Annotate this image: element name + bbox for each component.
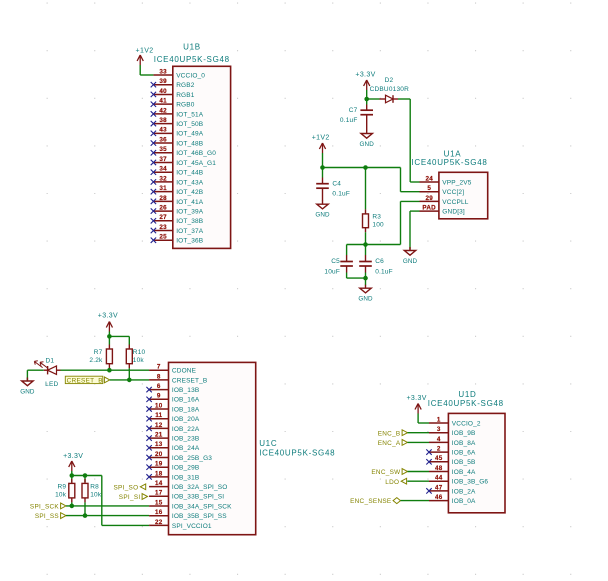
U1D pin 4 IOB_8A: [429, 436, 476, 447]
svg-text:41: 41: [159, 98, 167, 105]
global label CRESET_B: [65, 376, 110, 384]
wire ENC_SW to U1D pin 48: [408, 471, 430, 473]
svg-text:37: 37: [159, 156, 167, 163]
svg-text:+1V2: +1V2: [312, 135, 330, 142]
svg-text:IOB_8A: IOB_8A: [452, 440, 476, 447]
svg-text:VCC[2]: VCC[2]: [442, 189, 464, 196]
svg-text:45: 45: [435, 455, 443, 462]
svg-text:IOB_18A: IOB_18A: [172, 406, 200, 413]
svg-text:IOB_6A: IOB_6A: [452, 450, 476, 457]
svg-text:10uF: 10uF: [324, 269, 340, 276]
svg-text:IOT_43A: IOT_43A: [176, 179, 204, 186]
svg-text:39: 39: [159, 78, 167, 85]
svg-text:U1D: U1D: [458, 390, 476, 399]
svg-text:GND: GND: [315, 212, 330, 219]
svg-text:ICE40UP5K-SG48: ICE40UP5K-SG48: [259, 449, 335, 458]
U1D pin 47 IOB_2A: [426, 484, 476, 495]
U1C pin 8 CRESET_B: [149, 373, 207, 384]
svg-text:+3.3V: +3.3V: [406, 395, 426, 402]
wire CRESET_B label to U1C pin 8: [110, 379, 149, 381]
U1C pin 13 IOB_24A: [146, 441, 199, 452]
svg-text:CRESET_B: CRESET_B: [67, 378, 103, 385]
svg-text:R8: R8: [90, 483, 99, 490]
svg-text:IOB_33B_SPI_SI: IOB_33B_SPI_SI: [172, 494, 224, 501]
svg-text:SPI_SCK: SPI_SCK: [30, 504, 60, 511]
node R9 bottom / SPI_SCK junction: [70, 504, 75, 509]
global label SPI_SS: [35, 513, 66, 521]
ground below C4: [315, 201, 330, 219]
svg-text:IOB_2A: IOB_2A: [452, 488, 476, 495]
svg-text:IOT_46B_G0: IOT_46B_G0: [176, 150, 216, 157]
U1B pin 41 RGB0: [151, 98, 195, 109]
wire ENC_A to U1D pin 4: [408, 441, 430, 443]
wire SPI_SCK to U1C pin 15: [66, 505, 149, 507]
svg-text:IOT_48B: IOT_48B: [176, 140, 203, 147]
svg-text:23: 23: [159, 224, 167, 231]
svg-text:IOT_39A: IOT_39A: [176, 208, 204, 215]
svg-text:36: 36: [159, 136, 167, 143]
svg-text:IOT_36B: IOT_36B: [176, 238, 203, 245]
svg-text:29: 29: [425, 195, 433, 202]
U1B pin 33 VCCIO_0: [153, 68, 205, 79]
svg-text:+3.3V: +3.3V: [98, 313, 118, 320]
svg-text:ENC_A: ENC_A: [378, 440, 401, 447]
svg-text:ICE40UP5K-SG48: ICE40UP5K-SG48: [154, 55, 230, 64]
svg-text:0.1uF: 0.1uF: [375, 269, 393, 276]
svg-text:IOB_35B_SPI_SS: IOB_35B_SPI_SS: [172, 513, 227, 520]
IC U1C ICE40UP5K-SG48 (bank 1 IO / SPI): [169, 362, 256, 534]
svg-text:IOB_22A: IOB_22A: [172, 426, 200, 433]
U1C pin 9 IOB_16A: [146, 393, 199, 404]
svg-text:6: 6: [157, 383, 161, 390]
svg-text:22: 22: [155, 519, 163, 526]
U1D pin 1 VCCIO_2: [429, 416, 481, 427]
svg-text:C7: C7: [349, 107, 358, 114]
svg-text:IOB_9B: IOB_9B: [452, 430, 476, 437]
wire rail down to U1A pin 5: [400, 168, 402, 192]
resistor R7 2.2k: [108, 336, 110, 344]
resistor R8 10k: [84, 476, 86, 482]
global label ENC_B: [378, 430, 408, 438]
U1B pin 23 IOT_37A: [151, 224, 204, 235]
svg-text:43: 43: [159, 127, 167, 134]
global label ENC_SENSE: [350, 498, 400, 506]
svg-text:35: 35: [159, 146, 167, 153]
svg-text:ENC_SENSE: ENC_SENSE: [350, 498, 391, 505]
svg-text:SPI_SO: SPI_SO: [114, 484, 139, 491]
U1D pin 46 IOB_0A: [429, 494, 476, 505]
svg-text:38: 38: [159, 117, 167, 124]
capacitor C4 0.1uF: [322, 168, 324, 178]
svg-text:IOT_42B: IOT_42B: [176, 189, 203, 196]
svg-text:IOB_24A: IOB_24A: [172, 445, 200, 452]
U1C pin 17 IOB_33B_SPI_SI: [149, 490, 224, 501]
power +3.3V (R7/R10): [98, 313, 118, 337]
U1C pin 21 IOB_23B: [146, 432, 199, 443]
wire caps bottom: [347, 277, 366, 279]
svg-text:2.2k: 2.2k: [89, 357, 103, 364]
IC U1A ICE40UP5K-SG48 (power pins): [439, 172, 488, 219]
node R7 bottom / CDONE junction: [107, 368, 112, 373]
ground below C7: [360, 130, 375, 148]
svg-text:26: 26: [159, 204, 167, 211]
U1C pin 22 SPI_VCCIO1: [149, 519, 212, 530]
svg-text:GND: GND: [358, 296, 373, 303]
U1C pin 18 IOB_31B: [146, 470, 199, 481]
svg-text:GND: GND: [403, 258, 418, 265]
wire +3.3V to U1D pin 1: [418, 422, 429, 424]
power +3.3V (R9/R8): [63, 453, 83, 476]
wire down to U1C pin 22 SPI_VCCIO1: [101, 476, 103, 526]
svg-text:0.1uF: 0.1uF: [332, 191, 350, 198]
svg-text:9: 9: [157, 393, 161, 400]
svg-text:IOB_32A_SPI_SO: IOB_32A_SPI_SO: [172, 484, 228, 491]
node +3.3V / R9 top junction: [70, 473, 75, 478]
U1C pin 20 IOB_25B_G3: [146, 451, 212, 462]
svg-text:CRESET_B: CRESET_B: [172, 377, 208, 384]
svg-text:+3.3V: +3.3V: [355, 72, 375, 79]
power +3.3V (U1D): [406, 395, 426, 423]
power +1V2 (rail): [312, 135, 330, 168]
svg-text:47: 47: [435, 484, 443, 491]
U1A pin 5 VCC[2]: [420, 185, 465, 196]
node R3 bottom junction: [363, 242, 368, 247]
svg-text:U1B: U1B: [183, 42, 201, 51]
capacitor C7 0.1uF: [366, 99, 368, 105]
svg-text:27: 27: [159, 214, 167, 221]
U1B pin 42 IOT_51A: [151, 107, 204, 118]
svg-text:+3.3V: +3.3V: [63, 453, 83, 460]
wire SPI_SS to U1C pin 16: [66, 515, 149, 517]
LED D1: [34, 358, 60, 388]
resistor R9 10k: [71, 476, 73, 482]
svg-text:18: 18: [155, 470, 163, 477]
node +3.3V junction at D2 anode: [364, 97, 369, 102]
svg-text:17: 17: [155, 490, 163, 497]
U1D pin 45 IOB_5B: [426, 455, 475, 466]
svg-text:IOT_51A: IOT_51A: [176, 111, 204, 118]
svg-text:ENC_B: ENC_B: [378, 430, 401, 437]
global label ENC_A: [378, 440, 408, 448]
U1B pin 28 IOT_41A: [151, 195, 204, 206]
svg-text:ENC_SW: ENC_SW: [371, 469, 401, 476]
node R8 top junction: [83, 473, 88, 478]
svg-text:ICE40UP5K-SG48: ICE40UP5K-SG48: [428, 399, 504, 408]
svg-text:4: 4: [437, 436, 441, 443]
svg-text:28: 28: [159, 195, 167, 202]
svg-text:VCCIO_0: VCCIO_0: [176, 72, 205, 79]
svg-text:SPI_SS: SPI_SS: [35, 513, 59, 520]
node R10 bottom / CRESET junction: [127, 378, 132, 383]
U1B pin 38 IOT_50B: [151, 117, 204, 128]
svg-text:VCCPLL: VCCPLL: [442, 199, 468, 206]
wire ENC_SENSE to U1D pin 46: [401, 500, 430, 502]
wire R9 top to R8 top and right: [72, 475, 102, 477]
svg-text:15: 15: [155, 499, 163, 506]
svg-text:IOB_13B: IOB_13B: [172, 387, 199, 394]
U1D pin 2 IOB_6A: [426, 446, 476, 457]
svg-text:U1C: U1C: [259, 439, 277, 448]
U1A pin PAD GND[3]: [420, 205, 465, 216]
svg-text:3: 3: [437, 426, 441, 433]
svg-text:IOB_25B_G3: IOB_25B_G3: [172, 455, 212, 462]
svg-text:GND: GND: [360, 141, 375, 148]
svg-text:RGB1: RGB1: [176, 92, 195, 99]
U1C pin 15 IOB_34A_SPI_SCK: [149, 499, 232, 510]
U1B pin 25 IOT_36B: [151, 234, 204, 245]
svg-text:IOB_16A: IOB_16A: [172, 397, 200, 404]
svg-text:GND[3]: GND[3]: [442, 209, 465, 216]
node +1V2 rail left junction: [320, 165, 325, 170]
IC U1B ICE40UP5K-SG48 (bank 0 IO): [173, 66, 231, 248]
svg-text:5: 5: [427, 185, 431, 192]
U1C pin 12 IOB_22A: [146, 422, 199, 433]
U1B pin 40 RGB1: [151, 88, 195, 99]
U1C pin 7 CDONE: [149, 364, 197, 375]
svg-text:R3: R3: [372, 214, 381, 221]
U1B pin 34 IOT_44B: [151, 166, 204, 177]
wire R3 bottom to U1A pin 29 (VCCPLL): [366, 244, 401, 246]
ground below C5/C6: [358, 285, 373, 303]
svg-text:C5: C5: [331, 258, 340, 265]
svg-text:2: 2: [437, 446, 441, 453]
svg-text:IOB_20A: IOB_20A: [172, 416, 200, 423]
U1C pin 14 IOB_32A_SPI_SO: [149, 480, 227, 491]
svg-text:LED: LED: [45, 381, 58, 388]
U1B pin 36 IOT_48B: [151, 136, 204, 147]
svg-text:40: 40: [159, 88, 167, 95]
svg-text:12: 12: [155, 422, 163, 429]
svg-text:SPI_SI: SPI_SI: [119, 494, 141, 501]
U1C pin 11 IOB_20A: [146, 412, 199, 423]
global label SPI_SO: [114, 484, 146, 492]
node R8 bottom / SPI_SS junction: [83, 513, 88, 518]
U1D pin 3 IOB_9B: [429, 426, 475, 437]
svg-text:IOB_23B: IOB_23B: [172, 436, 199, 443]
svg-text:16: 16: [155, 509, 163, 516]
svg-text:IOT_37A: IOT_37A: [176, 228, 204, 235]
wire +1V2 rail: [323, 167, 401, 169]
wire LDO to U1D pin 44: [407, 480, 429, 482]
svg-text:R7: R7: [94, 349, 103, 356]
svg-text:46: 46: [435, 494, 443, 501]
svg-text:D1: D1: [45, 358, 54, 365]
global label LDO: [385, 478, 406, 486]
wire ENC_B to U1D pin 3: [408, 432, 430, 434]
svg-text:IOT_45A_G1: IOT_45A_G1: [176, 160, 216, 167]
svg-text:IOB_0A: IOB_0A: [452, 498, 476, 505]
U1B pin 39 RGB2: [151, 78, 195, 89]
svg-text:IOB_4A: IOB_4A: [452, 469, 476, 476]
U1C pin 19 IOB_29B: [146, 461, 199, 472]
power +1V2 (U1B): [136, 48, 154, 76]
wire +1V2 to U1B pin 33: [140, 74, 153, 76]
U1C pin 16 IOB_35B_SPI_SS: [149, 509, 227, 520]
ground below U1A PAD: [403, 247, 418, 265]
svg-text:IOT_49A: IOT_49A: [176, 131, 204, 138]
node +3.3V / R7 top junction: [107, 334, 112, 339]
svg-text:IOB_31B: IOB_31B: [172, 474, 199, 481]
U1C pin 6 IOB_13B: [146, 383, 199, 394]
svg-text:RGB0: RGB0: [176, 102, 195, 109]
svg-text:25: 25: [159, 234, 167, 241]
U1D pin 44 IOB_3B_G6: [429, 475, 488, 486]
svg-text:LDO: LDO: [385, 479, 399, 486]
svg-text:44: 44: [435, 475, 443, 482]
node caps bottom junction: [363, 276, 368, 281]
svg-text:R10: R10: [133, 349, 146, 356]
svg-text:19: 19: [155, 461, 163, 468]
global label SPI_SI: [119, 494, 148, 502]
svg-text:48: 48: [435, 465, 443, 472]
svg-text:IOB_34A_SPI_SCK: IOB_34A_SPI_SCK: [172, 503, 232, 510]
svg-text:7: 7: [157, 364, 161, 371]
svg-text:21: 21: [155, 432, 163, 439]
U1B pin 35 IOT_46B_G0: [151, 146, 217, 157]
IC U1D ICE40UP5K-SG48 (bank 2 IO): [448, 413, 505, 512]
svg-text:24: 24: [425, 175, 433, 182]
svg-text:VPP_2V5: VPP_2V5: [442, 179, 471, 186]
U1A pin 24 VPP_2V5: [420, 175, 472, 186]
svg-text:D2: D2: [385, 77, 394, 84]
global label SPI_SCK: [30, 503, 66, 511]
svg-text:IOT_44B: IOT_44B: [176, 170, 203, 177]
svg-text:GND: GND: [20, 388, 35, 395]
svg-text:VCCIO_2: VCCIO_2: [452, 420, 481, 427]
svg-text:CDONE: CDONE: [172, 368, 197, 375]
svg-text:IOT_41A: IOT_41A: [176, 199, 204, 206]
svg-text:100: 100: [372, 222, 384, 229]
power +3.3V (D2/C7): [355, 72, 375, 100]
svg-text:IOT_38B: IOT_38B: [176, 218, 203, 225]
svg-text:20: 20: [155, 451, 163, 458]
svg-text:1: 1: [437, 416, 441, 423]
U1B pin 43 IOT_49A: [151, 127, 204, 138]
capacitor C5 10uF: [346, 245, 348, 256]
U1D pin 48 IOB_4A: [429, 465, 476, 476]
svg-text:10k: 10k: [133, 357, 145, 364]
ground left of LED: [26, 370, 28, 380]
svg-text:SPI_VCCIO1: SPI_VCCIO1: [172, 523, 212, 530]
U1B pin 37 IOT_45A_G1: [151, 156, 217, 167]
wire to ground below caps: [365, 278, 367, 285]
svg-text:10k: 10k: [90, 491, 102, 498]
svg-text:RGB2: RGB2: [176, 82, 195, 89]
wire D2 cathode to U1A pin 24: [398, 98, 410, 100]
svg-text:42: 42: [159, 107, 167, 114]
svg-text:8: 8: [157, 373, 161, 380]
svg-text:R9: R9: [57, 483, 66, 490]
svg-text:C6: C6: [375, 258, 384, 265]
diode D2 CDBU0130R: [367, 77, 409, 103]
svg-text:10: 10: [155, 402, 163, 409]
wire U1A PAD to ground: [410, 210, 420, 212]
wire caps top rail: [347, 244, 366, 246]
svg-text:34: 34: [159, 166, 167, 173]
node rail/R3 junction: [363, 165, 368, 170]
svg-text:32: 32: [159, 175, 167, 182]
U1B pin 32 IOT_43A: [151, 175, 204, 186]
global label ENC_SW: [371, 469, 407, 477]
U1B pin 26 IOT_39A: [151, 204, 204, 215]
svg-text:IOB_3B_G6: IOB_3B_G6: [452, 479, 489, 486]
svg-text:IOB_29B: IOB_29B: [172, 465, 199, 472]
svg-text:0.1uF: 0.1uF: [340, 117, 358, 124]
U1B pin 31 IOT_42B: [151, 185, 204, 196]
svg-text:PAD: PAD: [422, 205, 436, 212]
svg-text:10k: 10k: [55, 491, 67, 498]
U1A pin 29 VCCPLL: [420, 195, 469, 206]
svg-text:+1V2: +1V2: [136, 48, 154, 55]
svg-text:13: 13: [155, 441, 163, 448]
wire R7 top to R10 top: [109, 335, 129, 337]
wire LED anode to U1C pin 7 CDONE: [61, 369, 150, 371]
svg-text:11: 11: [155, 412, 162, 419]
capacitor C6 0.1uF: [365, 245, 367, 256]
U1B pin 27 IOT_38B: [151, 214, 204, 225]
svg-text:CDBU0130R: CDBU0130R: [370, 86, 409, 93]
svg-text:ICE40UP5K-SG48: ICE40UP5K-SG48: [411, 158, 487, 167]
svg-text:C4: C4: [332, 180, 341, 187]
wire ground to LED cathode: [27, 369, 43, 371]
svg-text:IOB_5B: IOB_5B: [452, 459, 476, 466]
resistor R10 10k: [128, 336, 130, 344]
resistor R3 100: [365, 168, 367, 210]
svg-text:31: 31: [159, 185, 167, 192]
svg-text:IOT_50B: IOT_50B: [176, 121, 203, 128]
svg-text:33: 33: [159, 68, 167, 75]
U1C pin 10 IOB_18A: [146, 402, 199, 413]
svg-text:14: 14: [155, 480, 163, 487]
